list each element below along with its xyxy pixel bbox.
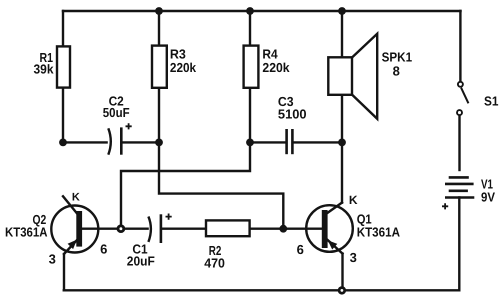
svg-text:8: 8 (393, 64, 400, 79)
svg-text:220k: 220k (262, 60, 290, 75)
svg-text:KT361A: KT361A (357, 225, 401, 240)
svg-text:5100: 5100 (278, 107, 307, 122)
svg-text:6: 6 (297, 242, 304, 257)
svg-text:39k: 39k (34, 62, 55, 77)
svg-text:3: 3 (350, 250, 357, 265)
svg-text:K: K (72, 192, 80, 204)
svg-text:9V: 9V (481, 189, 495, 204)
svg-text:SPK1: SPK1 (382, 50, 413, 65)
svg-text:20uF: 20uF (127, 254, 155, 269)
svg-text:6: 6 (100, 242, 107, 257)
svg-text:K: K (349, 193, 358, 207)
svg-text:KT361A: KT361A (5, 224, 48, 239)
svg-text:220k: 220k (170, 60, 197, 75)
svg-text:S1: S1 (484, 93, 499, 108)
svg-text:3: 3 (49, 252, 56, 267)
svg-text:50uF: 50uF (103, 105, 130, 120)
svg-text:470: 470 (204, 256, 225, 271)
